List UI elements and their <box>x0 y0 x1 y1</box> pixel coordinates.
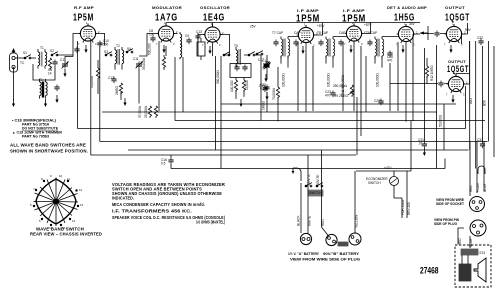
svg-text:7: 7 <box>344 42 346 46</box>
transformer T2 <box>115 44 124 70</box>
transformer T1 secondary (lower) <box>39 78 47 99</box>
capacitor C15 <box>259 84 268 92</box>
ground under V3 <box>208 46 211 54</box>
svg-text:27468: 27468 <box>420 266 439 276</box>
svg-text:9: 9 <box>50 174 52 178</box>
capacitor C12 <box>108 76 117 83</box>
wire S1 to T1 <box>31 57 36 59</box>
switch mounting box <box>308 190 323 196</box>
battery wire RED <box>322 150 329 236</box>
svg-text:7: 7 <box>202 43 204 47</box>
wave band switch <box>30 174 84 230</box>
bus wire 2 <box>102 111 437 113</box>
svg-text:0.5: 0.5 <box>161 162 166 166</box>
svg-text:OUTPUT: OUTPUT <box>445 5 465 10</box>
resistor R7 below box <box>242 78 249 97</box>
IF transformer T7 <box>281 37 290 59</box>
svg-text:14: 14 <box>72 219 76 223</box>
battery wire YELLOW <box>354 171 356 233</box>
grid cap to lower output tube <box>438 81 443 88</box>
bus wire 9 (+47V) <box>356 121 411 172</box>
wires to socket <box>470 141 484 196</box>
bus wire 7 <box>91 154 356 156</box>
svg-text:3: 3 <box>463 93 465 97</box>
wire T7 to IF1 grid <box>281 37 298 68</box>
svg-text:1P5M: 1P5M <box>73 13 94 24</box>
resistor R8 vertical with text <box>272 67 280 121</box>
battery wire BLACK <box>300 183 302 233</box>
resistor R6 below box <box>230 78 238 99</box>
capacitor C9 <box>185 34 192 44</box>
wire IF2 plate <box>362 23 371 34</box>
capacitor C31 <box>418 138 427 156</box>
ground under C17 <box>264 74 267 82</box>
tube V4 I.F AMP 1P5M <box>297 25 316 44</box>
svg-text:100,000Ω: 100,000Ω <box>376 72 380 87</box>
svg-text:3.0 OHMS (MANTEL): 3.0 OHMS (MANTEL) <box>196 220 225 225</box>
capacitor C26 <box>387 51 393 63</box>
capacitor C2 under RF <box>74 47 79 54</box>
capacitor C13 at osc grid <box>195 30 202 40</box>
switch S1 <box>24 55 31 59</box>
svg-text:2MEG: 2MEG <box>115 85 119 95</box>
svg-text:T9 CAP: T9 CAP <box>366 31 377 35</box>
tube V3 OSCILLATOR 1E4G <box>203 25 222 44</box>
tube V6 DET & AUDIO 1H5G <box>397 24 416 43</box>
svg-text:WHITE: WHITE <box>308 216 312 226</box>
svg-text:1E4G: 1E4G <box>203 13 225 24</box>
svg-text:100: 100 <box>149 32 155 36</box>
svg-text:C9: C9 <box>185 34 189 38</box>
battery wire WHITE <box>307 155 309 234</box>
wire C14 branch down <box>260 63 262 121</box>
wire C15 down <box>266 92 268 112</box>
svg-text:R11 500,000Ω: R11 500,000Ω <box>341 74 345 95</box>
ground under V4 <box>301 46 304 54</box>
ground below C12/R4 <box>123 98 126 106</box>
capacitor C24 <box>317 31 328 46</box>
svg-text:TC: TC <box>20 61 25 65</box>
svg-text:MODULATOR: MODULATOR <box>152 5 182 10</box>
svg-text:35,000Ω: 35,000Ω <box>142 57 146 70</box>
svg-text:I.F AMP: I.F AMP <box>297 8 319 13</box>
capacitor C8 at modulator grid <box>149 29 156 42</box>
svg-text:1Q5GT: 1Q5GT <box>447 64 469 74</box>
oscillator coil T5 <box>234 44 240 68</box>
wire C1 up to grid line <box>65 57 73 62</box>
tube V7 OUTPUT 1Q5GT <box>445 24 464 43</box>
bus wire 3 <box>175 120 485 122</box>
ground under oscillator <box>239 99 242 107</box>
resistor R1 (vertical) <box>48 58 51 70</box>
wire loop above socket <box>478 166 485 174</box>
vertical resistor R5 with text <box>138 105 158 118</box>
svg-text:500,000: 500,000 <box>148 43 152 55</box>
capacitor C33 <box>477 138 485 148</box>
svg-text:7: 7 <box>33 187 35 191</box>
resistor R4 (vertical) with label <box>115 83 123 100</box>
svg-text:300,000Ω: 300,000Ω <box>216 69 220 84</box>
svg-text:R12 1MEG: R12 1MEG <box>430 65 434 81</box>
capacitor C25 <box>338 31 345 46</box>
svg-text:+47V: +47V <box>384 166 392 170</box>
svg-text:25V: 25V <box>250 25 257 29</box>
svg-text:100,000: 100,000 <box>230 80 234 92</box>
svg-text:.01: .01 <box>418 141 423 145</box>
svg-text:MICA CONDENSER CAPACITY SHOW: MICA CONDENSER CAPACITY SHOWN IN mmfd. <box>112 202 205 207</box>
svg-text:6: 6 <box>30 203 32 207</box>
capacitor C13b inside box <box>234 65 239 72</box>
svg-text:PLUG: PLUG <box>476 183 480 192</box>
svg-text:RED: RED <box>458 238 462 245</box>
economizer switch circle <box>366 171 399 198</box>
capacitor C22 with ground <box>260 83 270 100</box>
svg-text:90V."B": 90V."B" <box>316 174 320 185</box>
switch S10 economizer <box>305 183 312 187</box>
svg-text:82Ω: 82Ω <box>469 97 473 104</box>
svg-text:C17: C17 <box>258 58 264 62</box>
svg-text:C32: C32 <box>477 36 483 40</box>
variable capacitor C17 <box>258 58 270 69</box>
variable capacitor C14 <box>262 59 271 70</box>
wire C11 down <box>138 69 140 104</box>
variable capacitor C1 <box>60 58 69 69</box>
svg-text:PART No 79563: PART No 79563 <box>22 135 49 139</box>
svg-text:VIEW FROM WIRE SIDE OF PL: VIEW FROM WIRE SIDE OF PLUG <box>290 258 361 262</box>
svg-text:3: 3 <box>173 42 175 46</box>
wire IF1 plate <box>314 23 323 36</box>
svg-text:ALL WAVE BAND SWITCHES ARE: ALL WAVE BAND SWITCHES ARE <box>10 143 86 148</box>
wire color labels <box>297 173 359 228</box>
oscillator trimmer box <box>197 38 205 60</box>
svg-text:BLACK: BLACK <box>297 215 301 226</box>
svg-text:SWITCH: SWITCH <box>368 181 381 185</box>
svg-text:RED: RED <box>469 185 473 192</box>
svg-text:+87V: +87V <box>364 23 372 27</box>
svg-text:SIDE OF PLUG: SIDE OF PLUG <box>434 222 458 226</box>
svg-text:3: 3 <box>361 42 363 46</box>
svg-text:DET & AUDIO AMP: DET & AUDIO AMP <box>387 5 427 10</box>
switch S3 <box>105 52 112 56</box>
bus wire 1 <box>221 103 456 105</box>
long right verticals <box>424 41 494 169</box>
switch S4 <box>126 49 133 53</box>
antenna ground wire <box>13 67 15 100</box>
diode arrow at det <box>420 26 428 40</box>
wire output plate <box>462 23 468 44</box>
svg-text:T1: T1 <box>40 46 44 50</box>
svg-text:3: 3 <box>219 43 221 47</box>
svg-text:T7 CAP: T7 CAP <box>272 31 283 35</box>
switch S11 <box>316 183 323 187</box>
svg-text:70,000Ω: 70,000Ω <box>272 87 276 100</box>
bus wire 8 <box>171 159 445 169</box>
svg-text:S3: S3 <box>104 50 108 54</box>
svg-text:CAP: CAP <box>294 31 301 35</box>
svg-text:I.F. TRANSFORMERS 456 KC: I.F. TRANSFORMERS 456 KC. <box>112 209 192 214</box>
speaker socket circle <box>470 197 485 212</box>
svg-text:1½ V. "A" BATTERY: 1½ V. "A" BATTERY <box>288 252 320 256</box>
svg-text:100,000Ω: 100,000Ω <box>282 72 286 87</box>
svg-text:E13: E13 <box>480 251 486 255</box>
resistor R12 near output with label <box>425 58 434 84</box>
wires oscillator <box>220 35 230 48</box>
bus wire 4 <box>78 128 466 130</box>
bus wire 6 <box>128 149 469 151</box>
capacitor C20 <box>272 31 283 46</box>
capacitor C10 with label <box>97 39 109 47</box>
svg-text:0.1: 0.1 <box>260 86 265 90</box>
output transformer block <box>459 255 471 281</box>
IF transformer T8 <box>326 37 335 59</box>
svg-text:14: 14 <box>48 71 52 75</box>
tube V8 OUTPUT 1Q5GT (lower) <box>447 74 466 93</box>
resistor R5b between mod and T4 <box>162 55 165 70</box>
tube V1 R.F AMP 1P5M <box>79 24 98 43</box>
vertical labels near economizer <box>401 199 411 215</box>
tall resistor R3 (vertical) <box>90 60 100 94</box>
svg-text:+87V: +87V <box>317 24 325 28</box>
svg-text:BLUE: BLUE <box>469 239 473 247</box>
svg-text:7: 7 <box>78 42 80 46</box>
oscillator padder box <box>230 64 251 78</box>
svg-text:R.F AMP: R.F AMP <box>74 5 94 10</box>
switch S7 <box>223 52 230 56</box>
ground (antenna) <box>12 99 15 107</box>
svg-text:470: 470 <box>387 58 393 62</box>
svg-text:C11: C11 <box>133 57 139 61</box>
ground under C1 <box>63 69 66 77</box>
wire from economizer down <box>394 197 402 199</box>
wire T8 secondary down <box>365 56 367 112</box>
svg-text:5: 5 <box>39 219 41 223</box>
svg-text:YELLOW: YELLOW <box>355 215 359 228</box>
top B+ bus wire <box>166 22 420 24</box>
svg-text:1Q5GT: 1Q5GT <box>445 13 470 24</box>
wires plug to speaker <box>458 228 470 248</box>
svg-text:BLUE: BLUE <box>483 184 487 192</box>
svg-text:1A7G: 1A7G <box>155 13 178 24</box>
long verticals IF1 <box>298 42 313 112</box>
svg-text:1MEG: 1MEG <box>262 100 266 110</box>
svg-text:SIDE OF SOCKET: SIDE OF SOCKET <box>436 202 464 206</box>
bus wire 5 <box>100 141 488 143</box>
svg-text:100,000Ω: 100,000Ω <box>327 72 331 87</box>
svg-text:I.F AMP: I.F AMP <box>343 8 365 13</box>
svg-text:15,000: 15,000 <box>245 80 249 90</box>
volume control R11 <box>341 74 354 97</box>
tone hook wire <box>293 168 301 181</box>
wire modulator plate to top bus <box>165 23 167 26</box>
speaker cone <box>474 258 486 282</box>
coupling capacitor C? <box>434 31 439 38</box>
det plate wire + 34V <box>414 33 420 35</box>
svg-text:RED: RED <box>321 219 325 226</box>
svg-text:SWITCH: SWITCH <box>309 191 322 195</box>
ground under V6 <box>401 45 404 53</box>
capacitor C4 <box>52 60 57 67</box>
svg-text:13: 13 <box>80 203 84 207</box>
ground under V8 <box>451 95 454 103</box>
capacitor C32 top right <box>477 36 484 45</box>
antenna terminal block <box>10 49 18 72</box>
svg-text:8: 8 <box>41 177 43 181</box>
battery plug B1 <box>326 234 337 245</box>
long verticals from modulator area <box>158 41 160 111</box>
speaker terminal strip E13 <box>461 249 485 255</box>
long verticals detector <box>390 34 413 122</box>
wire to RF tube grid <box>57 34 80 57</box>
switch S9 <box>256 51 263 55</box>
capacitor C5 with ground <box>48 68 60 103</box>
long verticals IF2 <box>343 41 361 136</box>
plug view caption <box>434 218 460 226</box>
ground under V1 <box>84 45 87 53</box>
svg-text:7: 7 <box>156 42 158 46</box>
svg-text:34V: 34V <box>409 22 416 26</box>
capacitor C23 <box>325 90 336 97</box>
svg-text:SHOWN IN SHORTWAVE POSITION.: SHOWN IN SHORTWAVE POSITION. <box>10 149 88 154</box>
wire T9 to det grid <box>375 37 398 68</box>
svg-text:90V."B" BATTERY: 90V."B" BATTERY <box>323 252 360 256</box>
wire osc grid left <box>198 33 205 56</box>
svg-text:C1: C1 <box>60 58 64 62</box>
switch S2 <box>51 52 58 56</box>
ground under V7 <box>449 45 452 53</box>
svg-text:11: 11 <box>67 177 70 181</box>
svg-text:90V: 90V <box>465 28 472 32</box>
speaker dashed enclosure <box>455 245 491 287</box>
socket wire labels <box>469 183 487 192</box>
wire into modulator grid <box>139 34 158 57</box>
oscillator coupling coil T4 <box>180 32 182 59</box>
svg-text:10: 10 <box>59 174 63 178</box>
ground under V5 <box>349 45 352 53</box>
tube V5 I.F AMP 1P5M <box>345 24 364 43</box>
svg-text:B5K: B5K <box>483 99 487 106</box>
wire RF grid-return long vertical <box>77 41 79 129</box>
svg-text:S2: S2 <box>50 49 54 53</box>
wire volume control down <box>356 97 358 155</box>
battery plug A <box>300 233 311 244</box>
wire mod right pin <box>174 33 178 35</box>
capacitor C27 <box>374 99 384 106</box>
switch S8 <box>248 52 255 56</box>
tube V2 MODULATOR 1A7G <box>157 24 176 43</box>
svg-text:7: 7 <box>446 93 448 97</box>
svg-text:OSCILLATOR: OSCILLATOR <box>200 5 230 10</box>
svg-text:CAP: CAP <box>339 31 346 35</box>
bracket wires around T1 secondary <box>33 64 55 80</box>
svg-text:7: 7 <box>444 43 446 47</box>
ground under T1 secondary <box>44 99 47 107</box>
wire RF plate right <box>96 34 105 46</box>
svg-text:T2: T2 <box>116 44 120 48</box>
svg-text:C13: C13 <box>196 30 202 34</box>
battery captions <box>288 252 361 262</box>
capacitor C24b <box>366 31 377 46</box>
wire antenna to S1 <box>15 57 24 59</box>
transformer T1 <box>38 46 47 69</box>
battery plug B2 <box>349 233 361 245</box>
svg-text:REAR VIEW – CHASSIS INVERTED: REAR VIEW – CHASSIS INVERTED <box>30 232 102 237</box>
svg-text:500: 500 <box>103 42 109 46</box>
socket view caption <box>436 198 464 206</box>
svg-text:T8 CAP: T8 CAP <box>317 31 328 35</box>
svg-text:INDICATED.: INDICATED. <box>112 196 134 201</box>
connector block between B plugs <box>338 242 348 246</box>
variable capacitor C11 <box>133 57 143 69</box>
ground under V2 <box>162 45 165 53</box>
svg-text:470: 470 <box>325 93 331 97</box>
tube pin number labels <box>78 21 468 97</box>
wire T8 to IF2 grid <box>326 37 346 68</box>
wires around lower output tube <box>456 41 470 84</box>
svg-text:REV 200: REV 200 <box>407 202 411 215</box>
svg-text:12: 12 <box>79 188 83 192</box>
capacitor C16 mid-bottom <box>161 155 174 169</box>
capacitor C21 <box>293 31 300 46</box>
svg-text:S1: S1 <box>23 51 27 55</box>
wave band switch caption <box>30 227 102 237</box>
speaker plug circle <box>470 220 486 236</box>
IF transformer T9 <box>375 37 384 59</box>
